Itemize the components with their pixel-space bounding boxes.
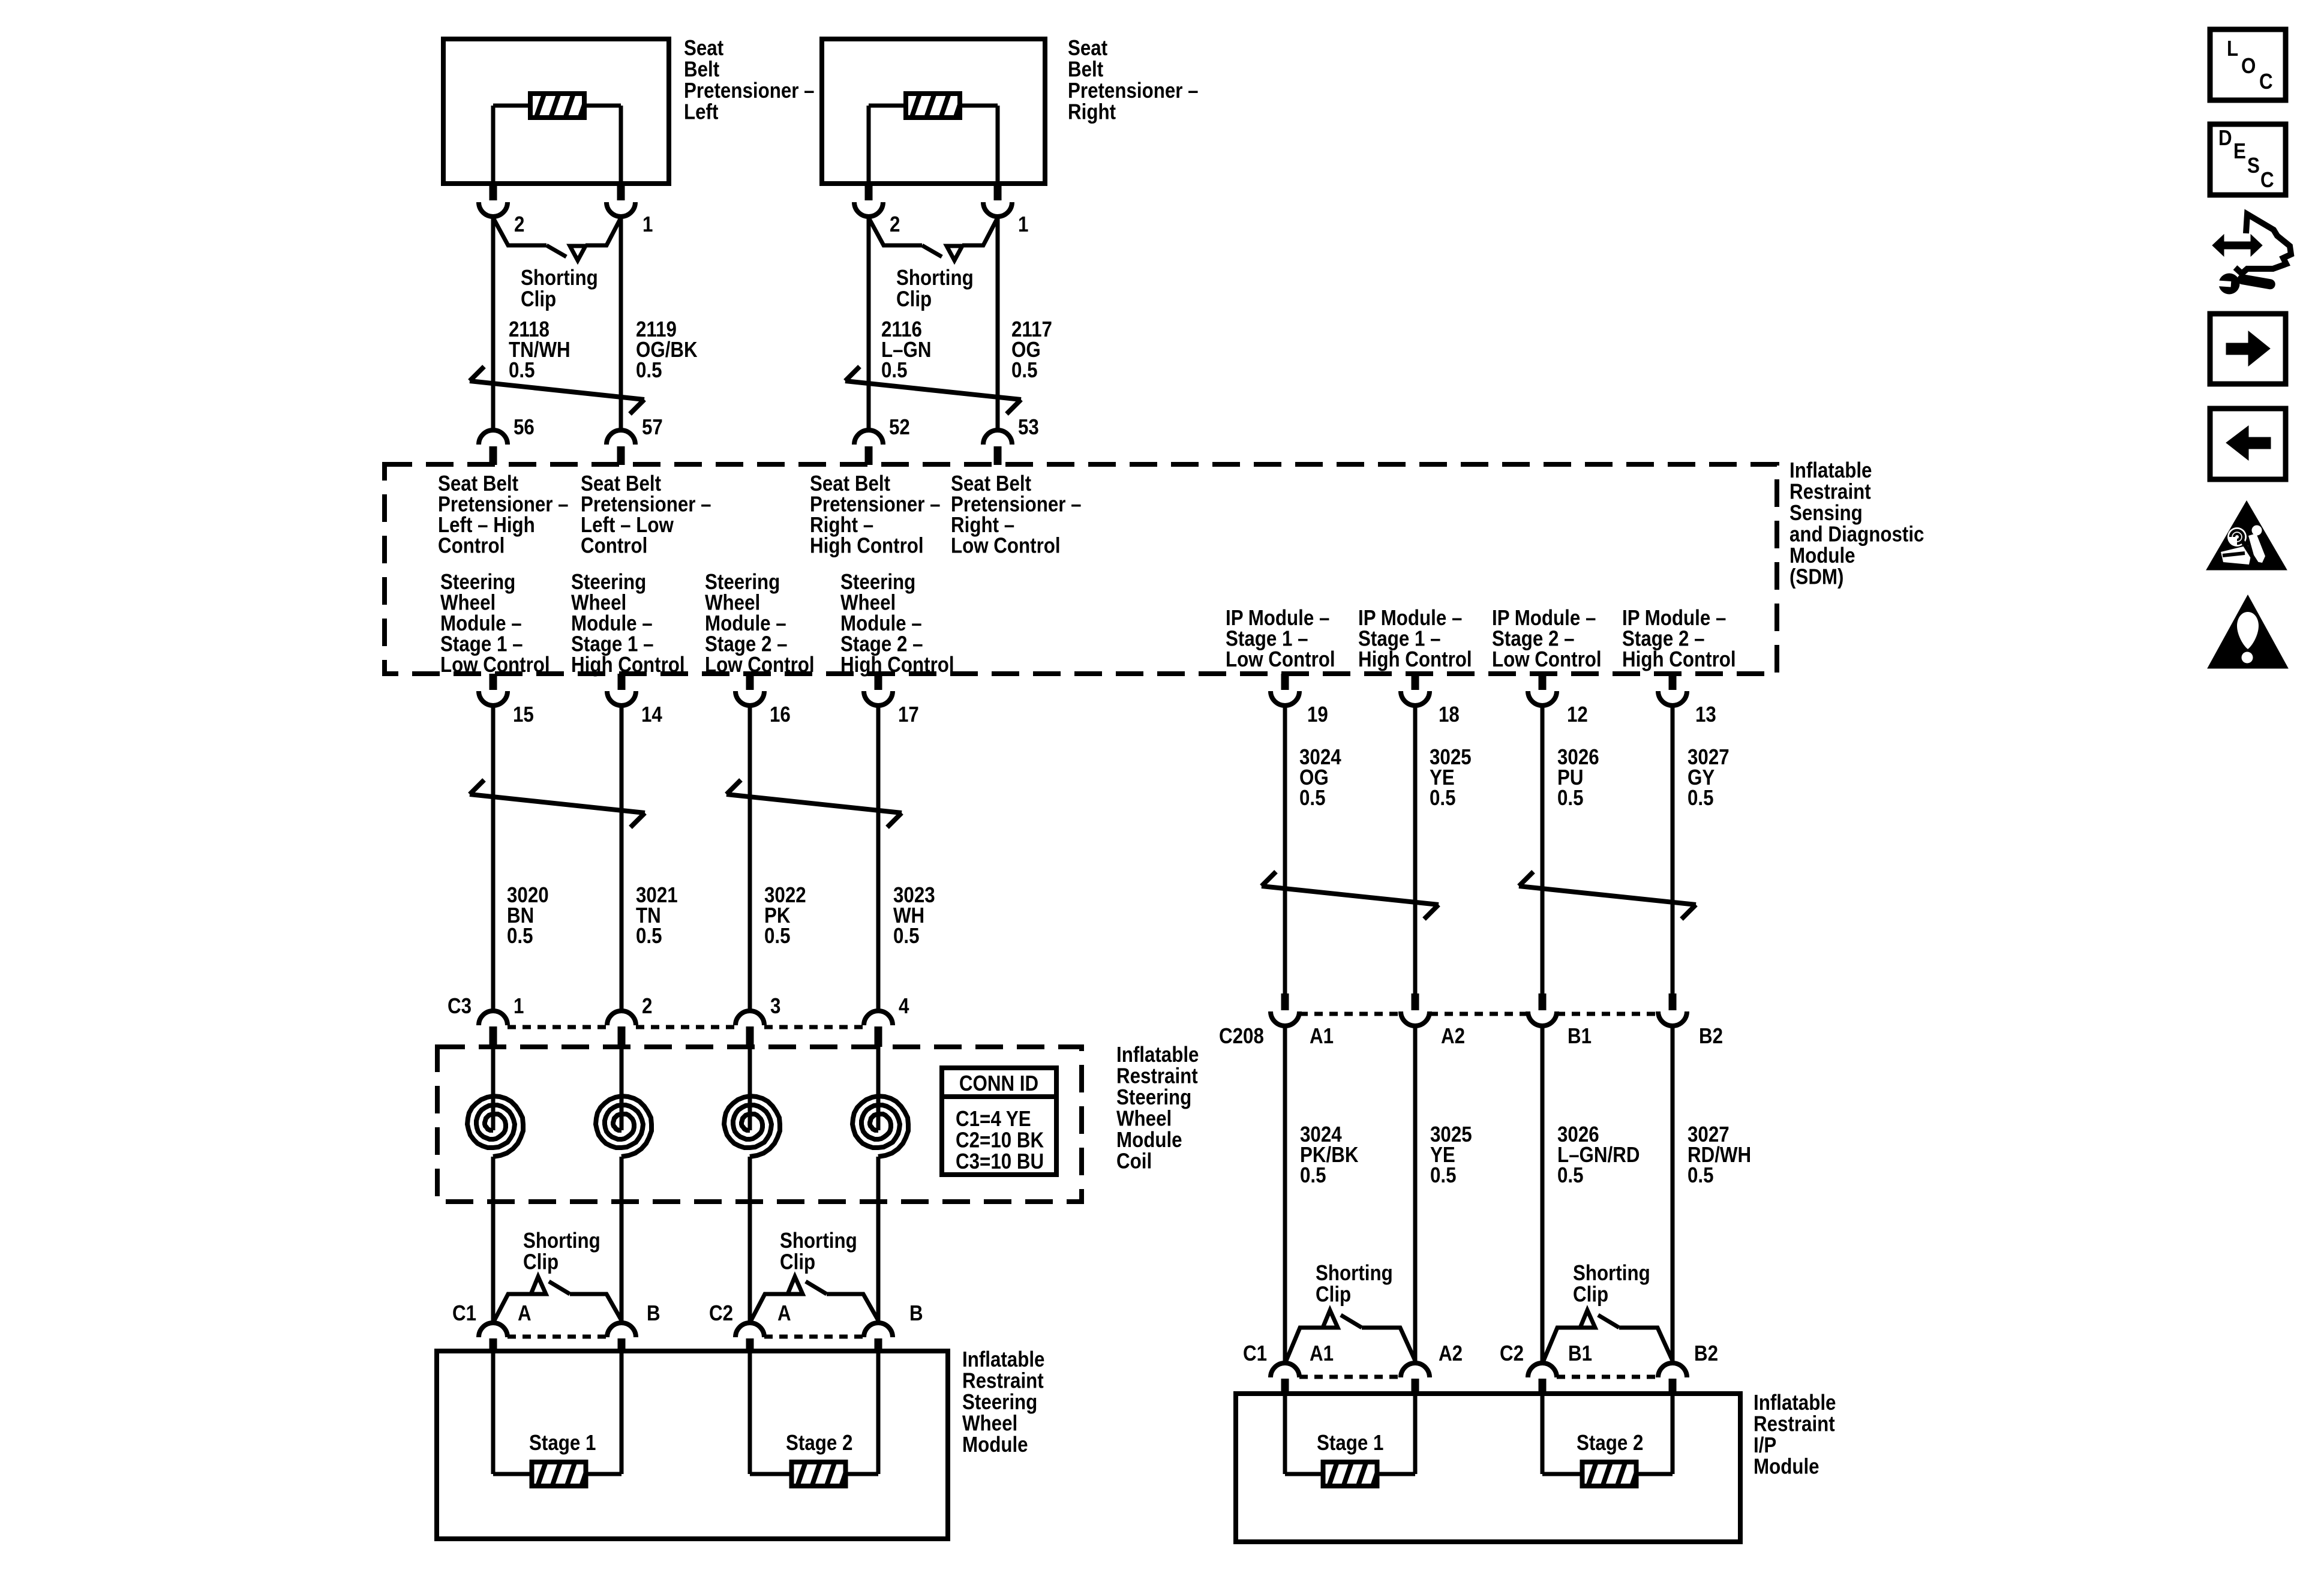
svg-text:C: C	[2260, 168, 2274, 193]
svg-text:1: 1	[642, 212, 653, 237]
svg-text:C1: C1	[452, 1301, 476, 1326]
svg-text:14: 14	[641, 703, 662, 727]
svg-text:D: D	[2218, 126, 2232, 151]
svg-text:0.5: 0.5	[1557, 786, 1584, 810]
svg-text:C1=4 YE: C1=4 YE	[956, 1107, 1031, 1131]
svg-text:Seat: Seat	[1068, 36, 1107, 61]
svg-text:Module: Module	[1789, 544, 1855, 568]
svg-text:0.5: 0.5	[881, 358, 908, 383]
svg-text:C208: C208	[1219, 1024, 1264, 1049]
svg-text:C2: C2	[1500, 1341, 1524, 1366]
svg-text:12: 12	[1567, 703, 1588, 727]
svg-text:0.5: 0.5	[1430, 1163, 1457, 1188]
svg-text:19: 19	[1307, 703, 1328, 727]
svg-text:2: 2	[642, 994, 652, 1019]
svg-text:Low Control: Low Control	[1492, 647, 1602, 672]
svg-text:Restraint: Restraint	[1789, 479, 1871, 504]
svg-text:C: C	[2259, 70, 2273, 94]
svg-text:Belt: Belt	[684, 57, 719, 82]
svg-text:Pretensioner –: Pretensioner –	[684, 79, 815, 103]
svg-text:Shorting: Shorting	[1573, 1261, 1650, 1286]
svg-text:A1: A1	[1310, 1341, 1334, 1366]
svg-text:Steering: Steering	[1116, 1085, 1191, 1110]
svg-text:0.5: 0.5	[636, 358, 662, 383]
svg-text:0.5: 0.5	[1688, 786, 1714, 810]
svg-text:Restraint: Restraint	[1116, 1064, 1198, 1088]
svg-text:0.5: 0.5	[507, 924, 533, 948]
svg-text:Module: Module	[1753, 1454, 1819, 1479]
svg-text:17: 17	[898, 703, 919, 727]
svg-text:Clip: Clip	[523, 1250, 559, 1274]
svg-text:Low Control: Low Control	[440, 653, 550, 677]
svg-text:A: A	[777, 1301, 791, 1326]
svg-text:A: A	[518, 1301, 532, 1326]
svg-text:Clip: Clip	[1316, 1282, 1351, 1307]
svg-text:Inflatable: Inflatable	[1116, 1043, 1199, 1067]
svg-text:E: E	[2233, 139, 2246, 164]
svg-text:B: B	[909, 1301, 923, 1326]
svg-text:Stage 2: Stage 2	[1577, 1431, 1643, 1455]
svg-text:0.5: 0.5	[636, 924, 662, 948]
svg-text:B1: B1	[1568, 1341, 1592, 1366]
svg-text:52: 52	[889, 415, 910, 440]
svg-text:Shorting: Shorting	[780, 1229, 857, 1253]
svg-text:1: 1	[514, 994, 524, 1019]
svg-text:Restraint: Restraint	[1753, 1412, 1835, 1436]
svg-text:13: 13	[1695, 703, 1716, 727]
svg-text:Clip: Clip	[780, 1250, 815, 1274]
svg-text:I/P: I/P	[1753, 1433, 1776, 1458]
svg-text:C1: C1	[1243, 1341, 1267, 1366]
svg-text:C2=10 BK: C2=10 BK	[956, 1128, 1044, 1152]
svg-text:Inflatable: Inflatable	[1789, 458, 1872, 483]
svg-text:Stage 1: Stage 1	[1317, 1431, 1383, 1455]
svg-text:B: B	[647, 1301, 660, 1326]
svg-text:(SDM): (SDM)	[1789, 565, 1843, 589]
svg-text:Coil: Coil	[1116, 1149, 1152, 1173]
svg-text:0.5: 0.5	[1557, 1163, 1584, 1188]
svg-text:Right: Right	[1068, 100, 1116, 124]
svg-text:Steering: Steering	[962, 1390, 1037, 1415]
svg-text:0.5: 0.5	[764, 924, 791, 948]
svg-text:Shorting: Shorting	[523, 1229, 600, 1253]
svg-text:Left: Left	[684, 100, 718, 124]
svg-text:0.5: 0.5	[1011, 358, 1038, 383]
svg-text:Restraint: Restraint	[962, 1368, 1044, 1393]
svg-text:Shorting: Shorting	[896, 266, 974, 290]
svg-text:A1: A1	[1310, 1024, 1334, 1049]
svg-text:Stage 1: Stage 1	[529, 1431, 596, 1455]
svg-text:Clip: Clip	[1573, 1282, 1608, 1307]
svg-text:L: L	[2227, 37, 2238, 61]
svg-text:Module: Module	[962, 1433, 1028, 1457]
svg-text:C3: C3	[448, 994, 472, 1019]
svg-text:53: 53	[1018, 415, 1039, 440]
svg-text:0.5: 0.5	[1430, 786, 1456, 810]
svg-text:S: S	[2247, 154, 2260, 178]
svg-text:Pretensioner –: Pretensioner –	[1068, 79, 1199, 103]
svg-text:Low Control: Low Control	[1226, 647, 1335, 672]
svg-text:3: 3	[770, 994, 780, 1019]
svg-text:0.5: 0.5	[1688, 1163, 1714, 1188]
svg-text:C2: C2	[709, 1301, 733, 1326]
svg-text:B2: B2	[1694, 1341, 1718, 1366]
svg-text:0.5: 0.5	[509, 358, 535, 383]
svg-text:Wheel: Wheel	[962, 1411, 1017, 1436]
svg-text:2: 2	[514, 212, 524, 237]
svg-text:Seat: Seat	[684, 36, 723, 61]
svg-text:15: 15	[513, 703, 534, 727]
svg-text:Clip: Clip	[896, 287, 932, 311]
svg-text:B1: B1	[1568, 1024, 1592, 1049]
svg-text:Low Control: Low Control	[705, 653, 815, 677]
svg-text:0.5: 0.5	[1299, 786, 1326, 810]
svg-text:Shorting: Shorting	[521, 266, 598, 290]
svg-text:CONN ID: CONN ID	[959, 1071, 1038, 1096]
svg-text:Inflatable: Inflatable	[1753, 1391, 1836, 1415]
svg-text:Stage 2: Stage 2	[786, 1431, 852, 1455]
svg-text:16: 16	[770, 703, 791, 727]
svg-text:57: 57	[642, 415, 663, 440]
svg-text:Control: Control	[581, 533, 647, 558]
svg-text:Wheel: Wheel	[1116, 1106, 1172, 1131]
svg-text:Module: Module	[1116, 1128, 1182, 1152]
svg-text:High Control: High Control	[840, 653, 954, 677]
svg-text:Low Control: Low Control	[951, 533, 1061, 558]
svg-text:1: 1	[1018, 212, 1028, 237]
svg-text:Inflatable: Inflatable	[962, 1347, 1044, 1372]
svg-text:O: O	[2241, 54, 2256, 79]
svg-text:B2: B2	[1699, 1024, 1723, 1049]
svg-text:A2: A2	[1441, 1024, 1465, 1049]
svg-text:and Diagnostic: and Diagnostic	[1789, 522, 1924, 547]
svg-text:High Control: High Control	[1622, 647, 1736, 672]
svg-text:Clip: Clip	[521, 287, 556, 311]
svg-text:4: 4	[899, 994, 909, 1019]
svg-text:Sensing: Sensing	[1789, 501, 1863, 526]
svg-text:A2: A2	[1439, 1341, 1463, 1366]
svg-text:18: 18	[1439, 703, 1460, 727]
svg-text:Belt: Belt	[1068, 57, 1103, 82]
svg-text:High Control: High Control	[1358, 647, 1472, 672]
svg-text:High Control: High Control	[810, 533, 924, 558]
svg-text:C3=10 BU: C3=10 BU	[956, 1149, 1044, 1174]
svg-text:Control: Control	[438, 533, 505, 558]
svg-text:High Control: High Control	[571, 653, 685, 677]
svg-text:56: 56	[514, 415, 535, 440]
svg-text:0.5: 0.5	[1300, 1163, 1326, 1188]
svg-text:2: 2	[890, 212, 900, 237]
svg-text:Shorting: Shorting	[1316, 1261, 1393, 1286]
svg-text:0.5: 0.5	[893, 924, 920, 948]
